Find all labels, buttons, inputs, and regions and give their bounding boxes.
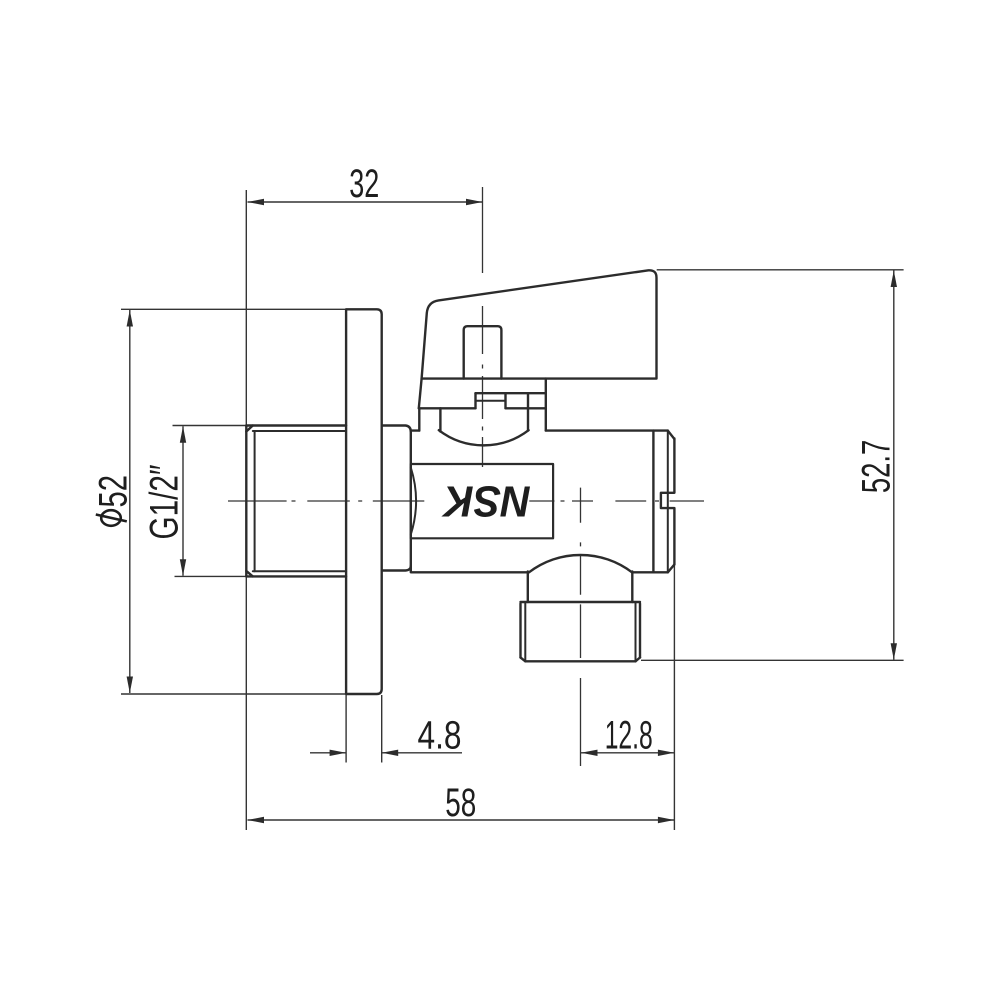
arrow 58 left — [248, 817, 265, 823]
bottom port dome — [529, 555, 632, 572]
ball arc — [439, 430, 529, 445]
arrow 58 right — [658, 817, 675, 823]
svg-text:32: 32 — [349, 162, 379, 206]
extension line G1/2 top — [173, 425, 247, 427]
left ear right edge — [439, 408, 441, 431]
bottom port neck left — [527, 572, 529, 603]
dimension line 4.8 right tail — [382, 752, 462, 754]
dimension line 4.8 left tail — [310, 752, 346, 754]
arrow phi52 bottom — [127, 677, 133, 694]
outlet thread root right — [635, 602, 637, 661]
inlet thread crest top — [246, 424, 346, 426]
extension line G1/2 bottom — [175, 575, 247, 577]
arrow 32 left — [248, 199, 265, 205]
bonnet underside right — [506, 407, 546, 409]
svg-text:52: 52 — [91, 475, 135, 508]
dimension line 58 — [248, 819, 675, 821]
arrowheads — [127, 199, 897, 823]
bore arc on body left face — [411, 468, 416, 535]
svg-text:4.8: 4.8 — [418, 714, 462, 758]
svg-text:NSK: NSK — [441, 477, 531, 526]
inlet thread root bottom — [253, 570, 346, 572]
text phi52 (rotated) — [91, 475, 135, 526]
packing small box right edge — [504, 393, 506, 408]
arrow 12.8 left — [581, 750, 598, 756]
left ear left edge — [418, 408, 420, 430]
body / end-cap junction — [652, 431, 654, 573]
packing small box divider — [476, 400, 506, 402]
svg-text:G1/2″: G1/2″ — [142, 465, 186, 540]
inlet pipe chamfer bottom — [246, 571, 253, 577]
extension line 52.7 top — [657, 269, 904, 271]
extension line 52.7 bottom — [641, 659, 904, 661]
extension line body right end — [673, 565, 675, 830]
body top edge right segment — [546, 429, 668, 431]
thin dimension / extension lines — [121, 190, 904, 830]
end cap right edge with screw slot — [661, 439, 675, 565]
end cap bottom chamfer — [668, 565, 675, 573]
handle — [422, 270, 657, 378]
extension line phi52 bottom — [121, 693, 346, 695]
arrow 4.8 right (outside, pointing left) — [382, 750, 399, 756]
outlet thread outer left — [519, 604, 521, 658]
svg-text:12.8: 12.8 — [605, 714, 653, 758]
wall flange — [346, 309, 382, 694]
outlet thread root left — [524, 602, 526, 661]
dimension line 52.7 — [893, 271, 895, 660]
arrow 4.8 left (outside, pointing right) — [330, 750, 347, 756]
arrow G1/2 bottom — [180, 559, 186, 576]
outlet thread outer right — [639, 604, 641, 658]
inlet pipe left face — [245, 426, 247, 577]
arrow 52.7 top — [891, 271, 897, 288]
end cap chamfer circle line — [667, 431, 669, 573]
body bottom edge right segment — [632, 571, 668, 573]
extension line left (pipe end, for 32 and 58) — [245, 190, 247, 830]
body left face — [410, 431, 412, 572]
packing small box left edge — [474, 393, 476, 408]
vertical stem axis — [482, 187, 484, 467]
dimension texts — [91, 162, 898, 825]
inlet thread runout line — [254, 431, 256, 571]
end cap top chamfer — [668, 431, 675, 439]
main horizontal axis — [228, 500, 704, 502]
bonnet underside left — [419, 407, 476, 409]
outlet chamfer bottom-left — [521, 658, 526, 662]
svg-text:52.7: 52.7 — [854, 440, 898, 494]
extension line flange right face — [381, 695, 383, 763]
arrow G1/2 top — [180, 426, 186, 443]
NSK label box — [411, 464, 553, 538]
arrow 52.7 bottom — [891, 643, 897, 660]
svg-text:58: 58 — [445, 781, 476, 825]
dimension line G1/2 — [182, 426, 184, 576]
dimension line phi52 — [129, 310, 131, 693]
NSK logo text (rotated 180) — [441, 477, 531, 526]
dimension line 32 — [248, 201, 483, 203]
body top edge left segment — [411, 429, 420, 431]
packing step bottom line — [476, 392, 546, 394]
arrow 12.8 right — [658, 750, 675, 756]
extension line phi52 top — [121, 308, 346, 310]
inlet pipe chamfer top — [246, 426, 253, 432]
outlet thread top edge — [521, 601, 641, 603]
outlet chamfer bottom-right — [636, 658, 641, 662]
extension line flange left face — [345, 695, 347, 763]
outlet thread bottom edge — [525, 660, 635, 662]
vertical bottom-port axis — [580, 488, 582, 766]
arrow phi52 top — [127, 310, 133, 327]
connecting neck bottom — [382, 566, 411, 571]
bottom port neck right — [631, 572, 633, 603]
dimension line 12.8 — [581, 752, 674, 754]
inlet thread crest bottom — [246, 575, 346, 577]
bonnet right edge — [545, 379, 547, 431]
stem — [464, 326, 502, 378]
connecting neck top — [382, 426, 411, 432]
inlet thread root top — [253, 430, 346, 432]
arrow 32 right — [466, 199, 483, 205]
center lines (dash-dot, drawn as explicit segments) — [228, 187, 704, 766]
body bottom edge left segment — [411, 571, 528, 573]
bonnet left block — [419, 379, 422, 409]
ear divider right — [527, 393, 529, 430]
